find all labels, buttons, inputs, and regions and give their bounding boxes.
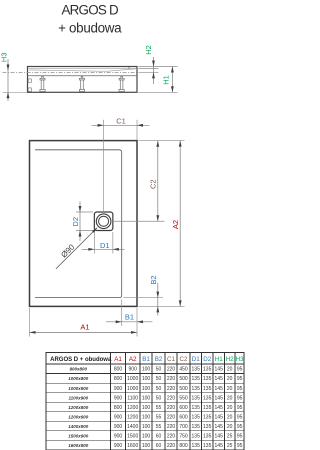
svg-text:100: 100 — [142, 367, 151, 373]
svg-text:145: 145 — [215, 405, 224, 411]
svg-text:C1: C1 — [167, 356, 175, 363]
svg-text:20: 20 — [227, 367, 233, 373]
svg-text:1000x900: 1000x900 — [68, 386, 89, 391]
svg-text:A1: A1 — [114, 356, 122, 363]
svg-text:100: 100 — [142, 433, 151, 439]
svg-text:20: 20 — [227, 405, 233, 411]
svg-text:600: 600 — [179, 405, 188, 411]
svg-text:95: 95 — [237, 405, 243, 411]
svg-text:95: 95 — [237, 443, 243, 449]
svg-text:1600: 1600 — [127, 443, 138, 449]
svg-text:145: 145 — [215, 386, 224, 392]
svg-text:135: 135 — [203, 405, 212, 411]
svg-text:145: 145 — [215, 367, 224, 373]
svg-text:1200: 1200 — [127, 414, 138, 420]
svg-text:A2: A2 — [171, 220, 180, 229]
svg-text:1400: 1400 — [127, 424, 138, 430]
svg-text:95: 95 — [237, 414, 243, 420]
svg-text:1100: 1100 — [127, 395, 138, 401]
svg-text:20: 20 — [227, 424, 233, 430]
svg-text:50: 50 — [156, 386, 162, 392]
svg-text:B2: B2 — [149, 275, 158, 284]
svg-text:100: 100 — [142, 424, 151, 430]
svg-text:145: 145 — [215, 433, 224, 439]
svg-text:220: 220 — [167, 395, 176, 401]
svg-text:20: 20 — [227, 414, 233, 420]
svg-text:95: 95 — [237, 395, 243, 401]
svg-text:135: 135 — [203, 367, 212, 373]
svg-text:550: 550 — [179, 395, 188, 401]
svg-text:D2: D2 — [203, 356, 211, 363]
svg-text:800: 800 — [179, 443, 188, 449]
svg-text:H1: H1 — [215, 356, 223, 363]
svg-text:95: 95 — [237, 424, 243, 430]
svg-text:100: 100 — [142, 376, 151, 382]
svg-text:900: 900 — [114, 443, 123, 449]
svg-text:D1: D1 — [100, 241, 110, 250]
svg-text:100: 100 — [142, 386, 151, 392]
svg-text:145: 145 — [215, 395, 224, 401]
svg-text:1000: 1000 — [127, 376, 138, 382]
svg-text:+ obudowa: + obudowa — [58, 21, 122, 36]
svg-text:800: 800 — [114, 367, 123, 373]
svg-text:B1: B1 — [125, 313, 134, 322]
svg-text:60: 60 — [156, 443, 162, 449]
svg-text:135: 135 — [192, 386, 201, 392]
svg-text:135: 135 — [192, 376, 201, 382]
svg-text:600: 600 — [179, 414, 188, 420]
svg-text:135: 135 — [192, 395, 201, 401]
svg-text:145: 145 — [215, 414, 224, 420]
svg-text:450: 450 — [179, 367, 188, 373]
svg-text:145: 145 — [215, 376, 224, 382]
svg-text:900: 900 — [114, 395, 123, 401]
svg-text:1000x800: 1000x800 — [68, 376, 89, 381]
svg-text:900: 900 — [114, 424, 123, 430]
svg-text:55: 55 — [156, 424, 162, 430]
svg-text:20: 20 — [227, 395, 233, 401]
svg-text:H3: H3 — [0, 53, 9, 63]
svg-text:100: 100 — [142, 395, 151, 401]
svg-text:500: 500 — [179, 376, 188, 382]
svg-text:135: 135 — [192, 367, 201, 373]
svg-text:100: 100 — [142, 414, 151, 420]
svg-text:20: 20 — [227, 386, 233, 392]
svg-text:135: 135 — [192, 414, 201, 420]
svg-text:H3: H3 — [236, 356, 244, 363]
svg-text:H1: H1 — [162, 75, 171, 85]
svg-text:220: 220 — [167, 424, 176, 430]
svg-text:H2: H2 — [144, 45, 153, 55]
svg-text:220: 220 — [167, 367, 176, 373]
svg-text:55: 55 — [156, 405, 162, 411]
svg-text:95: 95 — [237, 376, 243, 382]
svg-text:50: 50 — [156, 367, 162, 373]
svg-text:220: 220 — [167, 443, 176, 449]
svg-text:135: 135 — [203, 386, 212, 392]
svg-text:25: 25 — [227, 443, 233, 449]
svg-text:100: 100 — [142, 443, 151, 449]
svg-text:500: 500 — [179, 386, 188, 392]
svg-text:135: 135 — [203, 443, 212, 449]
svg-text:100: 100 — [142, 405, 151, 411]
svg-text:C1: C1 — [116, 116, 126, 125]
svg-text:220: 220 — [167, 414, 176, 420]
svg-text:C2: C2 — [149, 179, 158, 189]
svg-text:50: 50 — [156, 376, 162, 382]
svg-text:900: 900 — [114, 433, 123, 439]
svg-text:D1: D1 — [192, 356, 200, 363]
svg-text:135: 135 — [203, 395, 212, 401]
svg-text:ARGOS D + obudowa: ARGOS D + obudowa — [50, 357, 112, 363]
svg-text:900: 900 — [114, 414, 123, 420]
svg-text:1600x900: 1600x900 — [68, 443, 89, 448]
svg-text:A1: A1 — [80, 323, 89, 332]
svg-text:D2: D2 — [71, 217, 80, 227]
svg-text:220: 220 — [167, 433, 176, 439]
svg-text:750: 750 — [179, 433, 188, 439]
svg-text:800: 800 — [114, 376, 123, 382]
svg-text:A2: A2 — [129, 356, 137, 363]
svg-text:900x800: 900x800 — [70, 367, 88, 372]
svg-text:800: 800 — [114, 405, 123, 411]
svg-text:20: 20 — [227, 376, 233, 382]
svg-text:1200x800: 1200x800 — [68, 405, 89, 410]
svg-text:145: 145 — [215, 424, 224, 430]
svg-text:135: 135 — [192, 433, 201, 439]
svg-text:135: 135 — [203, 376, 212, 382]
svg-text:1100x900: 1100x900 — [68, 395, 88, 400]
svg-text:135: 135 — [192, 405, 201, 411]
svg-text:60: 60 — [156, 433, 162, 439]
svg-text:135: 135 — [203, 414, 212, 420]
svg-text:50: 50 — [156, 395, 162, 401]
svg-text:1500x900: 1500x900 — [68, 433, 89, 438]
svg-text:220: 220 — [167, 386, 176, 392]
svg-text:220: 220 — [167, 405, 176, 411]
svg-text:135: 135 — [203, 424, 212, 430]
svg-text:H2: H2 — [226, 356, 234, 363]
svg-text:55: 55 — [156, 414, 162, 420]
svg-text:135: 135 — [192, 424, 201, 430]
svg-text:95: 95 — [237, 367, 243, 373]
svg-text:1200: 1200 — [127, 405, 138, 411]
svg-text:900: 900 — [129, 367, 138, 373]
svg-text:95: 95 — [237, 386, 243, 392]
svg-text:700: 700 — [179, 424, 188, 430]
svg-text:C2: C2 — [180, 356, 188, 363]
svg-text:B2: B2 — [155, 356, 163, 363]
svg-text:95: 95 — [237, 433, 243, 439]
svg-text:1200x900: 1200x900 — [68, 414, 89, 419]
svg-text:1400x900: 1400x900 — [68, 424, 89, 429]
svg-text:ARGOS D: ARGOS D — [61, 2, 119, 17]
svg-text:25: 25 — [227, 433, 233, 439]
svg-text:1500: 1500 — [127, 433, 138, 439]
svg-text:900: 900 — [114, 386, 123, 392]
svg-text:220: 220 — [167, 376, 176, 382]
svg-text:135: 135 — [203, 433, 212, 439]
svg-text:B1: B1 — [142, 356, 150, 363]
svg-text:135: 135 — [192, 443, 201, 449]
svg-text:1000: 1000 — [127, 386, 138, 392]
svg-text:145: 145 — [215, 443, 224, 449]
